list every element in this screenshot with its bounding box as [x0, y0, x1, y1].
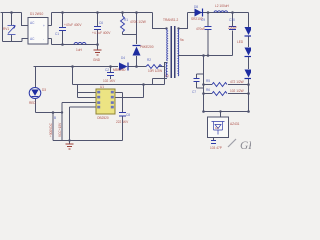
svg-text:D8: D8 [194, 5, 198, 9]
svg-text:C6: C6 [99, 21, 103, 25]
svg-text:D3: D3 [42, 88, 46, 92]
svg-text:VCC+15V: VCC+15V [58, 122, 62, 137]
svg-text:R5: R5 [206, 79, 210, 83]
svg-text:C2: C2 [105, 68, 109, 72]
svg-text:9a: 9a [180, 38, 184, 42]
svg-text:LED: LED [237, 40, 244, 44]
svg-text:470K 1/2W: 470K 1/2W [130, 20, 146, 24]
svg-text:C1: C1 [55, 32, 59, 36]
svg-text:MBR260: MBR260 [113, 68, 126, 72]
svg-text:C7: C7 [192, 90, 196, 94]
svg-text:D1 2W10: D1 2W10 [30, 12, 44, 16]
svg-text:+: + [43, 24, 45, 28]
svg-text:R6: R6 [206, 88, 210, 92]
svg-text:102 1/2W: 102 1/2W [230, 89, 244, 93]
svg-text:C10: C10 [229, 18, 235, 22]
svg-text:+300VDC: +300VDC [49, 122, 53, 137]
svg-text:10: 10 [165, 74, 169, 78]
svg-text:+4.7uF 400V: +4.7uF 400V [92, 31, 111, 35]
svg-text:C8: C8 [126, 113, 130, 117]
svg-text:1A: 1A [215, 126, 219, 130]
svg-text:AC: AC [30, 21, 35, 25]
svg-text:B: B [54, 116, 56, 120]
svg-text:L2 100uH: L2 100uH [215, 4, 230, 8]
svg-text:10R 1/2W: 10R 1/2W [148, 69, 162, 73]
svg-text:U1: U1 [100, 85, 104, 89]
svg-text:220uF: 220uF [228, 26, 237, 30]
svg-text:R2: R2 [147, 58, 151, 62]
svg-text:102 1KV: 102 1KV [103, 79, 116, 83]
svg-text:AZ431: AZ431 [230, 122, 240, 126]
svg-text:GPA: GPA [240, 140, 251, 152]
svg-text:472 1/2W: 472 1/2W [230, 80, 244, 84]
svg-text:1uH: 1uH [76, 48, 83, 52]
svg-text:+47uF 400V: +47uF 400V [64, 23, 82, 27]
svg-text:AC: AC [30, 37, 35, 41]
svg-text:R1: R1 [124, 18, 128, 22]
svg-text:D4: D4 [121, 56, 125, 60]
svg-text:OB2520: OB2520 [97, 116, 109, 120]
svg-text:P6KE200: P6KE200 [140, 45, 154, 49]
svg-text:C9: C9 [201, 18, 205, 22]
svg-text:222 1KV: 222 1KV [116, 120, 129, 124]
svg-text:103 47P: 103 47P [210, 146, 222, 150]
svg-text:RED: RED [29, 101, 36, 105]
svg-text:GND: GND [93, 58, 101, 62]
svg-text:470uF: 470uF [196, 27, 205, 31]
svg-text:RV1: RV1 [3, 27, 9, 31]
svg-text:TRANS1.2: TRANS1.2 [163, 18, 178, 22]
svg-text:-: - [43, 37, 44, 41]
